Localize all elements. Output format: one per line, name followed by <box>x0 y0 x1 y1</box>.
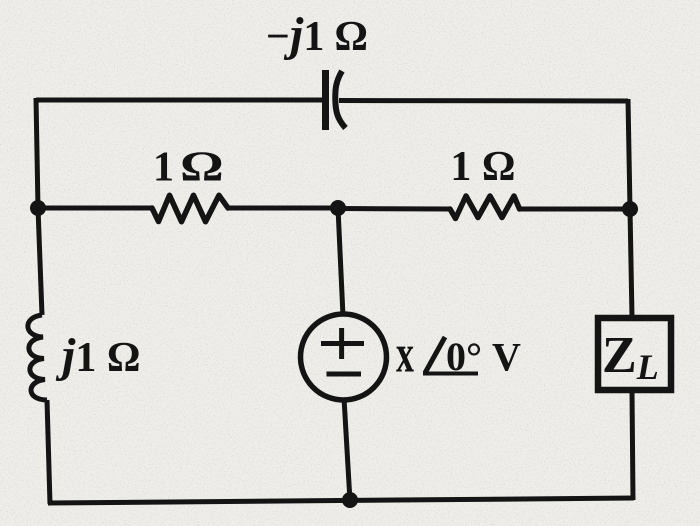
resistor R2 (right 1 ohm) <box>450 196 520 219</box>
wire right vertical lower <box>632 391 633 500</box>
wire middle horizontal right <box>518 207 630 212</box>
resistor R1 (left 1 ohm) <box>152 195 228 221</box>
wire bottom horizontal <box>48 498 634 503</box>
load box ZL <box>598 318 671 390</box>
inductor L1 (j1 ohm) <box>28 315 47 400</box>
node D (bottom) <box>342 492 358 508</box>
svg-text:1: 1 <box>153 145 174 191</box>
wire middle horizontal right-of-node <box>338 206 450 212</box>
wire left vertical lower <box>47 400 50 504</box>
wire top-left horizontal <box>36 98 323 103</box>
wire top-right horizontal <box>339 98 628 104</box>
svg-text:Ω: Ω <box>180 143 224 190</box>
capacitor C1 (-j1 ohm) left plate <box>322 70 329 130</box>
svg-text:1 Ω: 1 Ω <box>450 144 515 190</box>
angle symbol underline <box>423 372 478 376</box>
node A (left middle) <box>30 200 46 216</box>
capacitor C1 curved right plate <box>335 71 345 128</box>
voltage source V1 circle <box>301 314 387 400</box>
svg-text:V: V <box>492 335 521 380</box>
svg-text:−j1Ω: −j1Ω <box>266 8 368 61</box>
wire middle horizontal left <box>38 206 152 211</box>
voltage source minus sign <box>327 372 362 377</box>
angle symbol stroke <box>425 337 445 373</box>
wire source branch lower <box>344 398 350 501</box>
node B (center middle) <box>330 200 346 216</box>
svg-text:j1 Ω: j1 Ω <box>55 329 140 382</box>
node C (right middle) <box>622 201 638 217</box>
svg-text:x: x <box>396 324 414 384</box>
wire left vertical upper <box>36 98 42 315</box>
voltage source plus sign <box>321 341 364 346</box>
svg-text:0°: 0° <box>446 334 482 379</box>
wire source branch upper <box>338 208 343 316</box>
wire right vertical upper <box>628 99 632 317</box>
wire middle horizontal center <box>228 206 338 211</box>
